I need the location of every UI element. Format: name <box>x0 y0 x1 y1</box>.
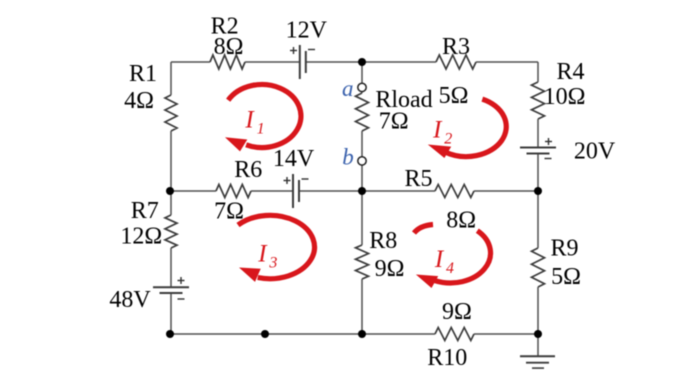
svg-text:5Ω: 5Ω <box>551 264 581 290</box>
svg-text:48V: 48V <box>109 287 151 313</box>
svg-text:R10: R10 <box>427 345 467 371</box>
svg-text:8Ω: 8Ω <box>214 34 244 60</box>
svg-text:R1: R1 <box>129 61 157 87</box>
svg-text:5Ω: 5Ω <box>439 83 469 109</box>
svg-text:R8: R8 <box>369 228 397 254</box>
svg-text:1: 1 <box>257 121 265 138</box>
svg-text:7Ω: 7Ω <box>379 109 409 135</box>
svg-text:a: a <box>342 76 354 101</box>
svg-text:R6: R6 <box>234 157 262 183</box>
svg-text:R3: R3 <box>442 34 470 60</box>
svg-text:4Ω: 4Ω <box>124 88 154 114</box>
svg-text:12V: 12V <box>286 18 328 44</box>
svg-text:b: b <box>342 145 354 170</box>
svg-text:R9: R9 <box>550 236 578 262</box>
svg-text:9Ω: 9Ω <box>442 299 472 325</box>
svg-text:7Ω: 7Ω <box>214 199 244 225</box>
svg-text:R7: R7 <box>131 198 159 224</box>
svg-text:3: 3 <box>268 255 277 272</box>
svg-text:12Ω: 12Ω <box>120 224 162 250</box>
svg-text:2: 2 <box>444 131 452 148</box>
svg-text:14V: 14V <box>273 146 315 172</box>
svg-text:R5: R5 <box>404 166 432 192</box>
svg-text:8Ω: 8Ω <box>446 207 476 233</box>
svg-text:R4: R4 <box>556 59 584 85</box>
svg-text:10Ω: 10Ω <box>544 84 586 110</box>
svg-text:20V: 20V <box>574 139 616 165</box>
svg-text:4: 4 <box>446 260 454 277</box>
svg-text:9Ω: 9Ω <box>375 256 405 282</box>
